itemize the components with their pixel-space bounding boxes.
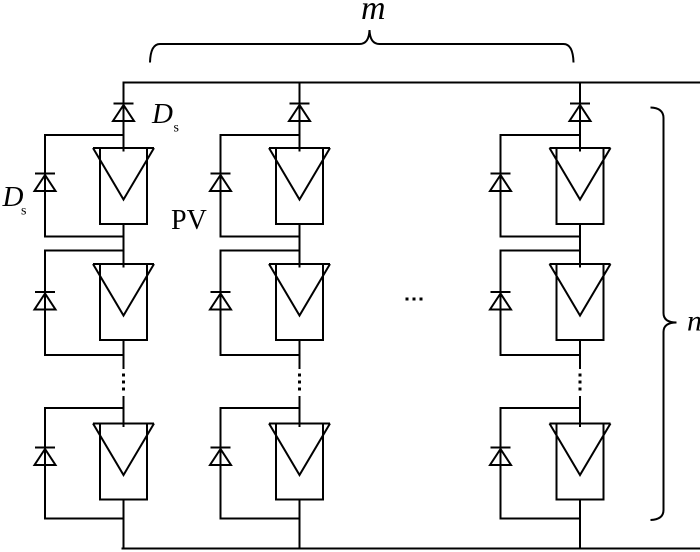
dotted wire column 2 <box>298 374 301 391</box>
bypass loop column 2 row 2 <box>221 251 300 356</box>
wire column 2 below row 2 <box>299 340 301 369</box>
wire column 2 top drop <box>299 83 301 152</box>
wire column 2 between rows 1-2 <box>299 224 301 268</box>
PV module column 2 row 3 <box>269 424 330 500</box>
bypass loop column 1 row 1 <box>45 135 124 237</box>
bypass loop column 1 row 2 <box>45 251 124 356</box>
wire column 1 to bottom bus <box>123 500 125 549</box>
bypass loop column 2 row 1 <box>221 135 300 237</box>
bypass diode column 2 row 2 <box>210 292 231 310</box>
top bus wire <box>123 82 700 84</box>
bypass diode column 3 row 1 <box>490 174 511 192</box>
wire column 1 below row 2 <box>123 340 125 369</box>
svg-text:s: s <box>21 204 26 219</box>
bypass loop column 2 row 3 <box>221 408 300 519</box>
diode Ds column 3 <box>570 104 591 122</box>
wire column 3 to bottom bus <box>579 500 581 549</box>
svg-text:PV: PV <box>171 205 207 236</box>
svg-text:n: n <box>687 305 700 338</box>
label PV <box>171 205 207 236</box>
bypass loop column 3 row 1 <box>501 135 581 237</box>
bypass diode column 3 row 3 <box>490 448 511 466</box>
PV module column 1 row 1 <box>93 148 154 224</box>
wire column 3 between rows 1-2 <box>579 224 581 268</box>
bypass loop column 3 row 3 <box>501 408 581 519</box>
bypass diode column 1 row 3 <box>35 448 56 466</box>
PV module column 1 row 2 <box>93 264 154 340</box>
diode Ds column 2 <box>289 104 310 122</box>
wire column 1 above row 3 <box>123 396 125 427</box>
wire column 2 above row 3 <box>299 396 301 427</box>
PV module column 2 row 2 <box>269 264 330 340</box>
bottom bus wire <box>122 548 700 550</box>
bypass diode column 1 row 1 <box>35 174 56 192</box>
PV module column 1 row 3 <box>93 424 154 500</box>
PV module column 3 row 3 <box>550 424 611 500</box>
dots between columns 2 and 3 <box>406 298 423 301</box>
wire column 3 below row 2 <box>579 340 581 369</box>
wire column 3 top drop <box>579 83 581 152</box>
PV module column 3 row 2 <box>550 264 611 340</box>
PV module column 2 row 1 <box>269 148 330 224</box>
svg-text:D: D <box>151 98 173 130</box>
label Ds (series diode, column 1) <box>151 98 179 136</box>
bypass loop column 3 row 2 <box>501 251 581 356</box>
label n <box>687 305 700 338</box>
brace n <box>651 108 677 521</box>
wire column 2 to bottom bus <box>299 500 301 549</box>
label m <box>361 0 386 27</box>
wire column 1 between rows 1-2 <box>123 224 125 268</box>
PV module column 3 row 1 <box>550 148 611 224</box>
bypass diode column 3 row 2 <box>490 292 511 310</box>
dotted wire column 1 <box>122 374 125 391</box>
bypass diode column 2 row 1 <box>210 174 231 192</box>
svg-text:m: m <box>361 0 386 27</box>
dotted wire column 3 <box>579 374 582 391</box>
bypass diode column 2 row 3 <box>210 448 231 466</box>
bypass diode column 1 row 2 <box>35 292 56 310</box>
brace m <box>150 30 574 63</box>
diode Ds column 1 <box>113 104 134 122</box>
wire column 1 top drop <box>123 83 125 152</box>
svg-text:s: s <box>174 121 179 136</box>
wire column 3 above row 3 <box>579 396 581 427</box>
label Ds (bypass diode, column 1) <box>2 181 27 219</box>
bypass loop column 1 row 3 <box>45 408 124 519</box>
